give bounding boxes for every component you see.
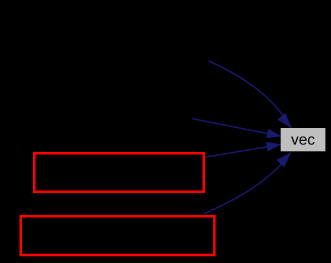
svg-text:vec: vec — [291, 132, 315, 149]
